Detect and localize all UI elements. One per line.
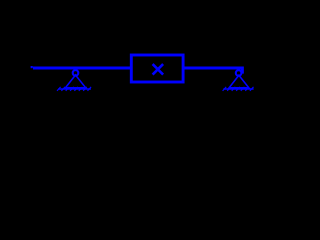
right support triangle	[229, 75, 249, 88]
left support ground line	[58, 88, 91, 90]
wire beam (lever bar)	[33, 68, 242, 74]
right support pivot circle	[236, 70, 242, 76]
left support triangle	[65, 75, 85, 88]
right support ground line	[223, 88, 253, 90]
right support ground hatching	[223, 87, 254, 91]
node left tip	[31, 66, 33, 68]
left support ground hatching	[57, 87, 91, 91]
left support pivot circle	[73, 70, 79, 76]
box U1 (gain block)	[131, 55, 183, 82]
multiply symbol x	[153, 64, 164, 75]
